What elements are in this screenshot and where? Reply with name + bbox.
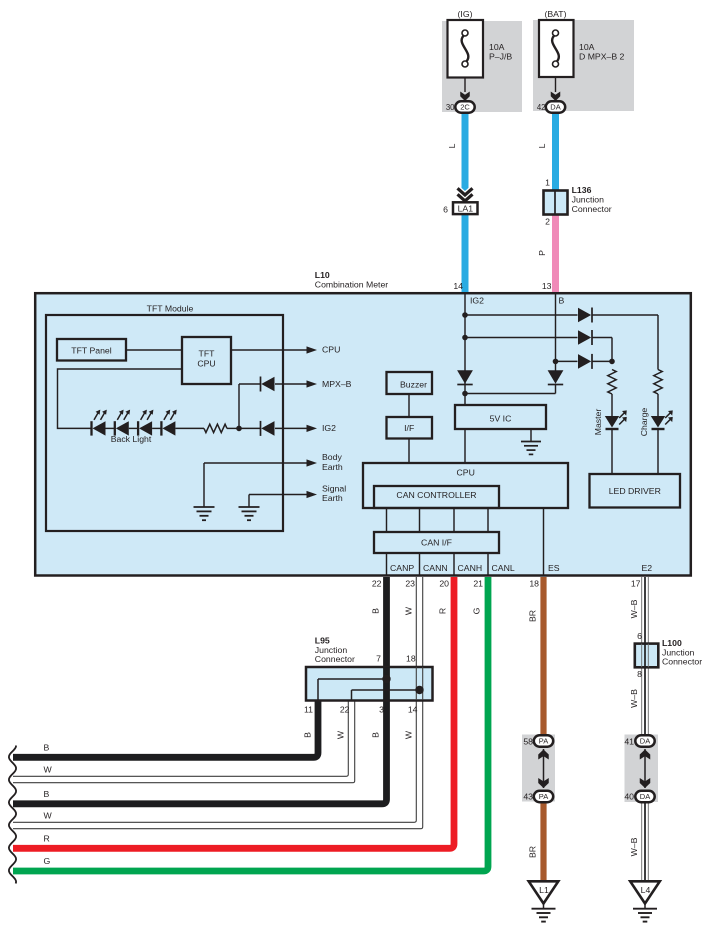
- svg-text:ES: ES: [548, 563, 560, 573]
- svg-text:10A: 10A: [489, 42, 505, 52]
- svg-text:Connector: Connector: [572, 204, 612, 214]
- svg-text:Master: Master: [593, 409, 603, 436]
- svg-text:Connector: Connector: [315, 654, 355, 664]
- svg-text:G: G: [472, 607, 482, 614]
- svg-text:2C: 2C: [460, 103, 470, 112]
- svg-text:PA: PA: [539, 737, 548, 746]
- svg-text:CPU: CPU: [457, 468, 475, 478]
- svg-text:W: W: [44, 811, 53, 821]
- svg-text:20: 20: [439, 579, 449, 589]
- svg-text:B: B: [303, 732, 313, 738]
- svg-text:CANL: CANL: [492, 563, 515, 573]
- svg-text:Body: Body: [322, 452, 342, 462]
- svg-text:D MPX–B 2: D MPX–B 2: [579, 52, 625, 62]
- svg-text:18: 18: [529, 579, 539, 589]
- svg-text:TFT Panel: TFT Panel: [71, 346, 111, 356]
- svg-text:W–B: W–B: [629, 689, 639, 708]
- svg-text:B: B: [44, 789, 50, 799]
- svg-text:22: 22: [340, 704, 350, 714]
- svg-text:W: W: [404, 730, 414, 739]
- svg-text:IG2: IG2: [470, 296, 484, 306]
- svg-text:10A: 10A: [579, 42, 595, 52]
- svg-text:2: 2: [545, 217, 550, 227]
- svg-text:L1: L1: [539, 885, 549, 895]
- svg-text:5V IC: 5V IC: [490, 413, 512, 423]
- svg-text:6: 6: [637, 631, 642, 641]
- svg-text:Charge: Charge: [639, 408, 649, 437]
- svg-text:(IG): (IG): [458, 9, 473, 19]
- svg-text:MPX–B: MPX–B: [322, 379, 352, 389]
- svg-text:13: 13: [542, 281, 552, 291]
- svg-text:L10: L10: [315, 270, 330, 280]
- svg-text:30: 30: [446, 103, 455, 112]
- svg-text:17: 17: [631, 579, 641, 589]
- svg-text:W: W: [404, 606, 414, 615]
- svg-text:CANN: CANN: [423, 563, 448, 573]
- svg-text:14: 14: [453, 281, 463, 291]
- svg-text:L: L: [447, 143, 457, 148]
- svg-text:(BAT): (BAT): [544, 9, 566, 19]
- svg-text:58: 58: [523, 737, 533, 747]
- svg-text:6: 6: [443, 205, 448, 215]
- svg-text:L4: L4: [641, 885, 651, 895]
- svg-text:CANP: CANP: [390, 563, 414, 573]
- svg-text:CAN I/F: CAN I/F: [421, 538, 452, 548]
- svg-text:Earth: Earth: [322, 493, 343, 503]
- svg-text:41: 41: [624, 737, 634, 747]
- svg-text:DA: DA: [550, 103, 560, 112]
- svg-text:TFT Module: TFT Module: [147, 304, 194, 314]
- svg-text:Back Light: Back Light: [111, 434, 152, 444]
- svg-text:B: B: [559, 296, 565, 306]
- svg-text:Signal: Signal: [322, 483, 346, 493]
- svg-text:W–B: W–B: [629, 599, 639, 618]
- svg-text:18: 18: [406, 654, 416, 664]
- svg-text:B: B: [44, 742, 50, 752]
- svg-text:23: 23: [405, 579, 415, 589]
- svg-text:8: 8: [637, 669, 642, 679]
- svg-text:CAN CONTROLLER: CAN CONTROLLER: [396, 490, 476, 500]
- svg-text:G: G: [44, 856, 51, 866]
- svg-text:CANH: CANH: [458, 563, 483, 573]
- svg-text:DA: DA: [640, 792, 650, 801]
- svg-text:Earth: Earth: [322, 462, 343, 472]
- svg-text:R: R: [44, 833, 50, 843]
- svg-text:43: 43: [523, 792, 533, 802]
- svg-text:E2: E2: [642, 563, 653, 573]
- svg-text:W: W: [44, 765, 53, 775]
- svg-text:Buzzer: Buzzer: [400, 380, 427, 390]
- svg-text:W–B: W–B: [629, 837, 639, 856]
- svg-text:L: L: [537, 143, 547, 148]
- svg-text:I/F: I/F: [404, 423, 414, 433]
- svg-text:P: P: [537, 250, 547, 256]
- svg-text:DA: DA: [640, 737, 650, 746]
- svg-text:CPU: CPU: [197, 359, 215, 369]
- svg-text:42: 42: [537, 103, 546, 112]
- svg-text:LED DRIVER: LED DRIVER: [609, 486, 661, 496]
- svg-text:B: B: [371, 608, 381, 614]
- svg-text:Connector: Connector: [662, 657, 702, 667]
- svg-text:21: 21: [473, 579, 483, 589]
- svg-text:BR: BR: [528, 610, 538, 622]
- svg-text:PA: PA: [539, 792, 548, 801]
- svg-text:CPU: CPU: [322, 345, 340, 355]
- svg-text:R: R: [438, 608, 448, 614]
- svg-text:22: 22: [372, 579, 382, 589]
- svg-text:W: W: [336, 730, 346, 739]
- svg-text:14: 14: [408, 704, 418, 714]
- svg-text:11: 11: [304, 704, 313, 714]
- svg-text:P–J/B: P–J/B: [489, 52, 512, 62]
- svg-text:TFT: TFT: [199, 349, 216, 359]
- svg-text:Combination Meter: Combination Meter: [315, 280, 389, 290]
- svg-text:40: 40: [624, 792, 634, 802]
- svg-text:BR: BR: [528, 846, 538, 858]
- svg-text:7: 7: [376, 654, 381, 664]
- svg-text:1: 1: [545, 178, 550, 188]
- svg-text:3: 3: [379, 704, 384, 714]
- svg-text:B: B: [371, 732, 381, 738]
- svg-text:LA1: LA1: [458, 204, 474, 214]
- svg-text:IG2: IG2: [322, 423, 336, 433]
